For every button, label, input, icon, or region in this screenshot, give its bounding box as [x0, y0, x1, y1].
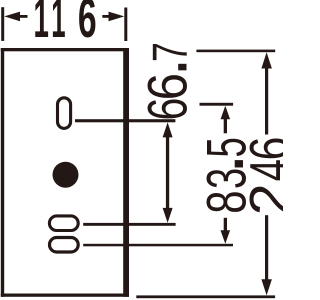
mounting plate outline bottom edge: [1, 294, 129, 297]
svg-text:6: 6: [138, 73, 199, 100]
dim 66.7 line: [163, 122, 173, 222]
svg-text:1: 1: [51, 0, 65, 50]
slot extension line: [75, 119, 175, 122]
slot hole (keyhole): [58, 98, 71, 129]
svg-text:.: .: [137, 61, 199, 74]
upper slot extension line: [83, 223, 175, 226]
knockout hole (filled circle): [53, 162, 79, 188]
svg-text:6: 6: [138, 98, 199, 121]
width dim arrow right: [109, 12, 125, 22]
lower slot extension line: [83, 244, 233, 247]
mounting plate outline right edge: [123, 48, 129, 297]
width dim tick right: [124, 8, 127, 42]
svg-text:7: 7: [143, 42, 198, 62]
top extension line (246 datum): [196, 50, 275, 53]
label 116: [34, 0, 97, 50]
upper screw slot: [49, 216, 78, 231]
bottom reference line: [136, 295, 275, 298]
dim 83.5 line: [221, 106, 231, 244]
svg-text:2: 2: [240, 183, 283, 215]
width dim tick left: [1, 7, 4, 41]
mounting plate outline left edge: [1, 48, 4, 297]
label 66.7: [137, 42, 199, 120]
label 83.5: [194, 137, 258, 214]
label 246: [239, 137, 301, 216]
mounting plate outline top edge: [1, 48, 129, 51]
width dim arrow left: [4, 12, 20, 22]
svg-text:6: 6: [78, 0, 97, 49]
dim 246 line: [261, 52, 272, 295]
svg-text:1: 1: [34, 0, 49, 50]
extension tick (83.5 datum): [200, 103, 234, 106]
svg-text:4: 4: [239, 159, 283, 181]
svg-text:6: 6: [239, 137, 283, 161]
lower screw slot: [50, 238, 79, 253]
